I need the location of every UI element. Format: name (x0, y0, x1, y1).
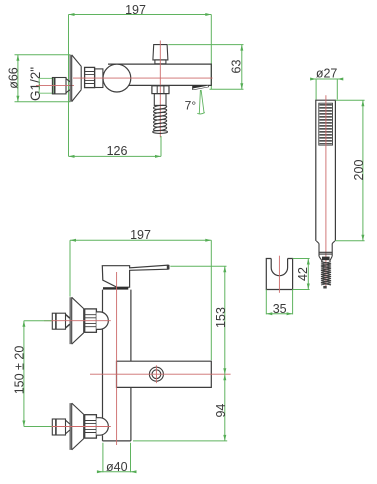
centerline upper union (44, 320, 111, 322)
lower hex nut front view (85, 415, 97, 438)
lower union dome front view (96, 418, 108, 436)
svg-text:42: 42 (296, 267, 310, 281)
hand shower spray face hatch (319, 103, 333, 145)
handle lever front view (102, 265, 169, 287)
dimension 197 top view (69, 3, 212, 17)
dimension 197 front view (70, 228, 211, 242)
svg-text:126: 126 (107, 144, 128, 158)
hose cylinder side view (154, 94, 166, 106)
svg-text:94: 94 (214, 404, 228, 418)
wire: extension line right of 197 top dimension (210, 15, 212, 90)
hand shower hose collar (316, 241, 335, 262)
svg-text:G1/2": G1/2" (28, 67, 43, 101)
wire: extension line left of 197 top dimension (68, 15, 70, 157)
upper union pipe stub front view (52, 313, 70, 329)
centerline spout axis front view (90, 373, 231, 375)
svg-text:150 ± 20: 150 ± 20 (13, 346, 27, 395)
escutcheon side view (70, 55, 81, 102)
centerline bracket (278, 256, 280, 293)
handle collar band front view (103, 287, 128, 289)
upper union dome front view (96, 312, 108, 330)
diverter knob side view (153, 45, 168, 64)
upper hex nut front view (85, 309, 97, 332)
lower union pipe stub front view (52, 419, 70, 435)
centerline vertical column front view (116, 272, 118, 445)
svg-text:7°: 7° (185, 98, 197, 112)
centerline hand shower (325, 95, 327, 288)
centerline of wall union top view (36, 85, 74, 87)
wire: extension line upper of 150 dimension (24, 320, 52, 322)
dimension 42 bracket (293, 259, 310, 290)
svg-text:35: 35 (273, 302, 287, 316)
svg-text:ø40: ø40 (106, 460, 128, 474)
svg-text:63: 63 (230, 60, 244, 74)
dimension 153 front view (170, 266, 228, 374)
svg-text:197: 197 (125, 3, 146, 17)
dimension ø27 hand shower (310, 67, 343, 100)
dimension 126 side view (69, 136, 162, 158)
angle dimension 7 degrees (185, 90, 205, 114)
centerline vertical axis side view (159, 41, 161, 138)
svg-text:ø27: ø27 (316, 67, 338, 81)
svg-text:ø66: ø66 (6, 67, 20, 89)
faucet body side view (108, 64, 211, 85)
dimension 200 hand shower (335, 100, 366, 241)
dimension ø40 front view (97, 443, 137, 474)
wire: extension line left of 197 bottom dimension (69, 240, 71, 296)
centerline lower union (44, 426, 111, 428)
wire: extension line right of 197 bottom dimension (210, 240, 212, 360)
flexible hose coils side view (153, 105, 168, 134)
faucet body column front view (103, 290, 131, 441)
hand shower handle outline (316, 100, 336, 241)
lower escutcheon front view (70, 403, 84, 450)
hose nut side view (152, 86, 169, 94)
neck cylinder side view (95, 69, 103, 88)
dimension 94 front view (133, 374, 228, 441)
wall bracket (266, 259, 292, 290)
centerline horizontal axis side view (73, 77, 213, 79)
aerator circles front view (149, 367, 163, 381)
dimension 63 side view (168, 45, 243, 90)
centerline aerator vertical (155, 365, 157, 383)
hand shower hose coil (321, 262, 331, 285)
hand shower hose tail (323, 286, 326, 289)
dimension ø66 top view (6, 55, 70, 102)
svg-text:153: 153 (214, 307, 228, 328)
hex nut side view (85, 67, 95, 87)
upper escutcheon front view (70, 297, 84, 344)
dimension 35 bracket (266, 290, 292, 317)
spout front view (117, 361, 212, 387)
spout outlet piece side view (192, 85, 209, 90)
svg-text:200: 200 (352, 160, 366, 181)
svg-text:197: 197 (130, 228, 151, 242)
pipe stub hidden part (green) top view (39, 78, 53, 93)
dimension 150 plus minus 20 (13, 321, 27, 427)
wire: extension line lower of 150 dimension (24, 426, 52, 428)
pipe stub G1/2 top view (52, 78, 70, 94)
label G1/2" top view (28, 67, 43, 101)
control knob circle side view (103, 64, 131, 92)
